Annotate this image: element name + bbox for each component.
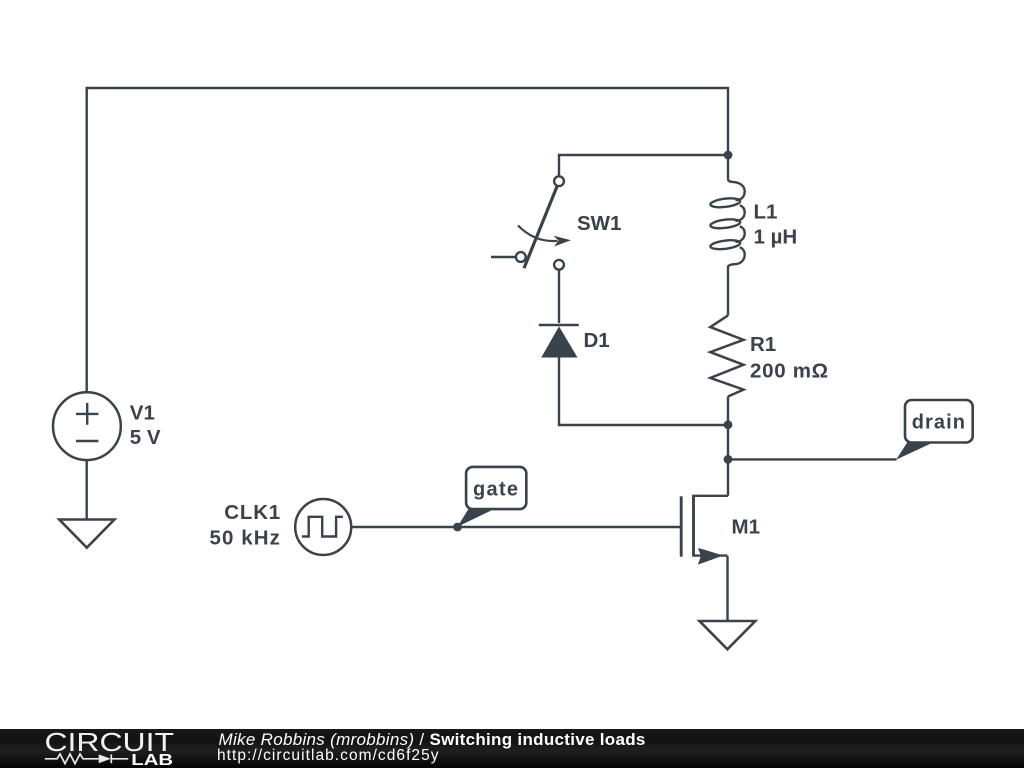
- M1 drain stub: [692, 495, 728, 497]
- diode D1: [539, 325, 579, 358]
- M1 channel bar: [692, 496, 695, 556]
- logo resistor-diode doodle: [45, 754, 129, 764]
- wire switch bottom to diode: [558, 270, 560, 323]
- wire node to switch top: [559, 155, 728, 176]
- footer author line: [219, 732, 646, 748]
- CircuitLab logo CIRCUIT: [0, 729, 220, 768]
- inductor L1: [710, 179, 745, 268]
- svg-text:SW1: SW1: [577, 212, 621, 235]
- svg-text:gate: gate: [473, 478, 519, 500]
- wire CLK1 to mosfet gate: [352, 526, 682, 528]
- SW1 blade: [524, 185, 558, 268]
- svg-text:M1: M1: [732, 516, 760, 539]
- gate net flag: [458, 467, 527, 527]
- svg-text:L1: L1: [754, 201, 778, 224]
- SW1 actuation arc: [518, 226, 558, 242]
- wire resistor bottom through nodes to mosfet drain: [727, 397, 729, 496]
- resistor R1: [710, 315, 743, 396]
- svg-text:drain: drain: [912, 411, 966, 433]
- ground (M1): [700, 621, 756, 649]
- svg-text:CLK1: CLK1: [224, 501, 281, 524]
- svg-text:LAB: LAB: [131, 752, 173, 768]
- ground (V1): [59, 520, 114, 548]
- switch SW1: [491, 176, 571, 269]
- SW1 terminal left: [516, 252, 526, 262]
- node junction drain: [724, 455, 733, 464]
- mosfet M1: [681, 496, 728, 565]
- SW1 arrow head: [553, 236, 571, 247]
- SW1 terminal bottom: [554, 260, 564, 270]
- svg-text:200 mΩ: 200 mΩ: [750, 359, 829, 382]
- wire V1 top to top-left corner and across to right: [87, 88, 728, 392]
- svg-text:R1: R1: [750, 333, 776, 356]
- svg-text:50 kHz: 50 kHz: [209, 527, 281, 550]
- footer bar: [0, 729, 1024, 768]
- clock source CLK1: [295, 499, 351, 555]
- svg-text:D1: D1: [584, 329, 610, 352]
- node junction diode/R1: [724, 420, 733, 429]
- wire M1 source to ground: [726, 556, 728, 621]
- svg-text:5 V: 5 V: [130, 426, 161, 449]
- wire diode bottom to node under R1: [559, 357, 726, 426]
- node junction gate flag: [453, 523, 462, 532]
- voltage source V1: [53, 392, 121, 460]
- svg-text:1 µH: 1 µH: [754, 226, 798, 249]
- M1 source stub: [692, 554, 727, 556]
- wire inductor top lead: [727, 157, 729, 179]
- wire drain node to drain flag: [728, 458, 897, 460]
- footer url line: [217, 748, 440, 764]
- SW1 terminal top: [554, 176, 564, 186]
- wire V1 bottom to ground: [85, 460, 87, 519]
- wire inductor-resistor lead: [727, 267, 729, 316]
- drain net flag: [896, 400, 973, 460]
- node junction at top (inductor/switch): [724, 151, 733, 160]
- M1 source arrow: [698, 548, 723, 565]
- M1 gate bar: [680, 496, 683, 556]
- svg-text:V1: V1: [130, 401, 155, 424]
- SW1 left stub: [491, 256, 516, 258]
